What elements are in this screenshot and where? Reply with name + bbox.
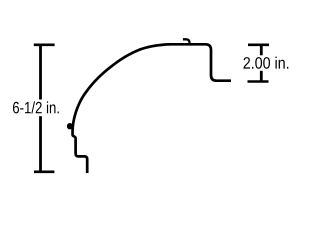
dimension 6-1/2 in. : bottom tick bar: [34, 171, 54, 174]
front lip hook: [183, 39, 190, 43]
drip bead bump on profile: [67, 123, 73, 129]
dimension 2.00 in. : top tick bar: [248, 43, 269, 46]
label 6-1/2 in.: [13, 101, 59, 113]
dimension 6-1/2 in. : top tick bar: [34, 43, 55, 46]
gutter profile outline: [73, 44, 231, 173]
label 2.00 in.: [244, 57, 289, 69]
dimension 6-1/2 in. : vertical line upper segment: [39, 45, 42, 100]
dimension 2.00 in. : vertical line upper segment: [260, 45, 263, 56]
dimension 2.00 in. : vertical line lower segment: [260, 71, 263, 82]
dimension 6-1/2 in. : vertical line lower segment: [39, 116, 42, 172]
dimension 2.00 in. : bottom tick bar: [248, 80, 269, 83]
